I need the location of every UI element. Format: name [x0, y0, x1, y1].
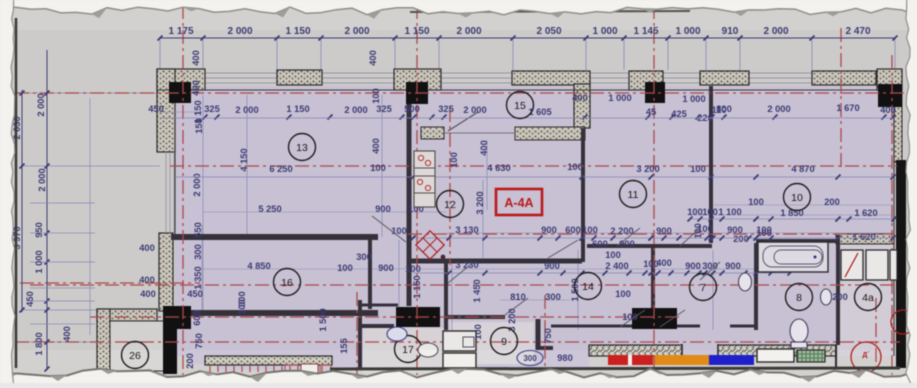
axis vertical x=654 [653, 5, 655, 378]
left short extension lines [30, 202, 95, 204]
wall rooms7|8 vertical [754, 243, 758, 330]
axis horizontal y=317 [90, 316, 680, 318]
column A1 [169, 82, 191, 103]
room circle 8 [786, 284, 813, 311]
right wall upper [894, 86, 902, 162]
wall room16 top [171, 234, 378, 240]
room circle 9 [491, 328, 518, 355]
svg-text:Д´: Д´ [862, 352, 870, 359]
wall top C [629, 71, 663, 90]
wall rooms11|10 vertical [709, 86, 713, 243]
scan edge line left [15, 18, 18, 368]
wall room17 left [358, 300, 362, 370]
left dim vertical lines [21, 90, 23, 312]
axis vertical x=417 [416, 5, 418, 375]
wall room8 top [756, 239, 836, 243]
left extension vertical x=90 [89, 98, 91, 335]
top dimension line [160, 37, 895, 39]
window sill d [700, 71, 749, 85]
sink oval room 17 [387, 327, 407, 341]
room circle 16 [274, 269, 301, 296]
column A2 bottom-left [163, 306, 191, 329]
wall top-right corner [877, 69, 902, 90]
kitchen boxes room 17 [443, 331, 476, 351]
room circle 14 [575, 273, 602, 300]
svg-text:26: 26 [129, 350, 141, 362]
plan outline right inner face [893, 90, 895, 356]
dim line row A [160, 117, 893, 119]
dim line row E [413, 272, 790, 274]
wall room16 right [368, 238, 372, 309]
room circle 13 [289, 134, 316, 161]
window sill e [812, 71, 876, 85]
toilet room 17 [418, 343, 438, 357]
small fixture boxes bottom middle [301, 364, 318, 374]
green hatched box [797, 350, 825, 362]
wall top-left vertical leg [157, 69, 175, 152]
wall corridor bottom [360, 304, 398, 307]
window sill c [512, 71, 590, 85]
room circle 4a [855, 284, 882, 311]
door line room15 [444, 132, 515, 134]
blue strip [709, 355, 754, 365]
row A ticks [203, 115, 208, 120]
room circle 26 [122, 342, 149, 369]
wall below room15 left piece [421, 127, 444, 139]
room 4a gray area [838, 243, 897, 370]
red circle fixture right 2 [891, 310, 915, 334]
left extension lines [22, 92, 160, 94]
torn border right [906, 0, 917, 383]
room fill main purple area [175, 86, 894, 356]
plan outline left inner face [174, 90, 176, 237]
toilet room 8 [790, 319, 808, 343]
column B1 [406, 82, 428, 104]
axis vertical x=183 [182, 5, 184, 375]
dim line row C right [690, 218, 894, 220]
window left wall glazing [165, 152, 167, 233]
right wall black band [896, 160, 906, 368]
sink diamond room 12 red [416, 231, 444, 259]
red strip [608, 355, 653, 365]
room circle 7 [690, 274, 717, 301]
wall room14 left [444, 262, 448, 330]
orange strip [654, 355, 709, 365]
room fill bottom-left corridor [191, 300, 596, 370]
label A-4A red box [496, 189, 542, 215]
wall room10|4a hatched [836, 234, 894, 244]
wall top-left corner [157, 69, 205, 90]
column D1 [878, 84, 902, 107]
svg-text:980: 980 [557, 353, 573, 363]
wall room12 bottom [409, 259, 582, 264]
wall room14 bottom [551, 325, 632, 328]
wall rooms11|14 bottom [587, 244, 712, 248]
sink room 7 oval [739, 273, 752, 291]
door diagonals [505, 298, 528, 315]
axis horizontal y=342 [15, 341, 900, 343]
svg-text:300: 300 [523, 354, 537, 363]
red circle fixture bottom right 1 [851, 342, 881, 372]
room 9 interior light [450, 322, 534, 364]
axis vertical x=841 [840, 28, 842, 170]
torn border top [0, 0, 917, 15]
axis vertical x=545 [544, 295, 546, 378]
wall room16 bottom [171, 310, 378, 316]
room 26 left wall [97, 309, 110, 371]
oval 300 room 9 [517, 351, 543, 366]
bottom wall right hatched [589, 345, 836, 356]
window sill b [277, 70, 322, 85]
dim line row B [175, 176, 893, 178]
torn border left [0, 0, 15, 383]
bathtub room 8 [758, 242, 828, 272]
kitchen room 12 counter [414, 151, 435, 207]
plan outline top inner face [157, 89, 902, 91]
bottom wall opening [682, 344, 718, 357]
axis vertical x=450 [449, 108, 451, 265]
svg-text:200: 200 [185, 353, 195, 369]
radiator red marks below wall [209, 366, 211, 372]
axis horizontal y=93 [15, 92, 907, 94]
interior extension lines light [202, 95, 204, 310]
wall left lower (room16) [159, 233, 173, 311]
wall room15 right vertical [574, 84, 590, 128]
wall below room15 right piece [515, 127, 585, 140]
room 26 top wall [97, 309, 157, 321]
wall rooms8|4a vertical [836, 235, 840, 345]
wall room9 top [448, 315, 505, 319]
kitchen room 4a boxes [841, 250, 863, 280]
wall room9 right [536, 319, 541, 350]
wall room7 bottom a [656, 325, 700, 328]
room circle 11 [620, 181, 647, 208]
room circle 17 [395, 336, 422, 363]
room circle 12 [437, 191, 464, 218]
dim line row D [413, 237, 893, 239]
wall room9 right step [538, 346, 553, 350]
axis horizontal y=234 [408, 233, 894, 235]
torn border bottom [0, 369, 917, 383]
wall room17 top [360, 324, 394, 328]
axis horizontal y=166 [170, 165, 897, 167]
scan edge line bottom [330, 368, 900, 369]
extra ticks row D/E [411, 236, 416, 241]
room circle 15 [507, 92, 534, 119]
bottom wall step right [835, 345, 837, 368]
axis vertical x=892 [891, 55, 893, 375]
axis vertical x=357 [356, 292, 358, 378]
column mid-bottom [396, 307, 440, 327]
black pier left [163, 329, 177, 374]
extension lines from top dims [159, 38, 161, 70]
sink room 8 oval [821, 289, 832, 305]
white box in wall [757, 349, 794, 362]
area below bottom wall gray [589, 356, 897, 383]
axis vertical x=876 [875, 298, 877, 372]
bottom wall left dotted [205, 356, 332, 365]
sink circles room 12 red [418, 155, 423, 160]
scan edge line top [410, 11, 690, 12]
window glazing lines top band [160, 72, 900, 74]
column right-bottom [632, 308, 677, 329]
wall rooms13|15 vertical [407, 104, 412, 306]
room 26 interior [110, 321, 165, 371]
washing machine room 9 small [463, 337, 474, 347]
wall rooms14|7 vertical [651, 248, 655, 327]
room circle 10 [784, 184, 811, 211]
wall room7 bottom b [730, 325, 756, 328]
wall rooms15|11 vertical [581, 128, 585, 262]
wall top B [394, 69, 441, 90]
column C1 [645, 82, 665, 103]
room 17 interior light [363, 328, 445, 373]
axis horizontal y=285 [30, 284, 894, 286]
